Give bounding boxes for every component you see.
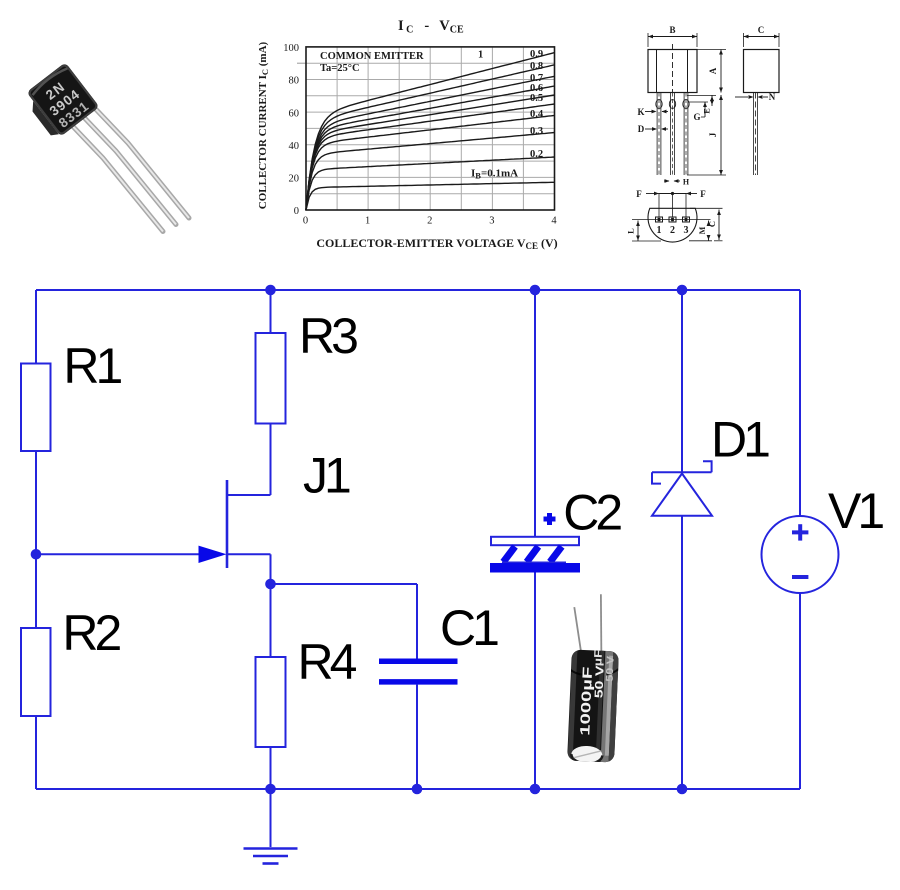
svg-text:60: 60	[289, 108, 300, 119]
svg-text:R4: R4	[298, 634, 357, 690]
svg-text:0.2: 0.2	[530, 149, 543, 160]
svg-text:D1: D1	[711, 411, 769, 467]
svg-text:80: 80	[289, 76, 300, 87]
svg-text:1: 1	[365, 216, 370, 227]
svg-text:H: H	[683, 178, 690, 187]
svg-text:20: 20	[289, 174, 300, 185]
svg-text:1: 1	[478, 50, 483, 61]
svg-text:A: A	[708, 67, 718, 74]
svg-text:µF: µF	[591, 649, 605, 667]
svg-text:40: 40	[289, 141, 300, 152]
svg-text:C: C	[758, 25, 765, 35]
svg-text:IC-VCE: IC-VCE	[398, 18, 464, 36]
svg-text:F: F	[700, 189, 706, 199]
svg-text:2: 2	[427, 216, 432, 227]
svg-text:G: G	[693, 112, 700, 122]
svg-text:0.4: 0.4	[530, 109, 544, 120]
svg-text:R2: R2	[62, 605, 120, 661]
svg-text:V1: V1	[828, 483, 883, 539]
svg-text:0.9: 0.9	[530, 49, 543, 60]
svg-text:E: E	[703, 108, 712, 113]
svg-text:3: 3	[684, 225, 689, 236]
svg-text:0.3: 0.3	[530, 126, 543, 137]
svg-text:1: 1	[657, 225, 662, 236]
svg-text:0.8: 0.8	[530, 61, 543, 72]
svg-text:J1: J1	[303, 448, 350, 504]
svg-text:L: L	[626, 228, 636, 234]
svg-text:2: 2	[670, 225, 675, 236]
svg-text:R1: R1	[63, 338, 121, 394]
svg-text:IB=0.1mA: IB=0.1mA	[471, 168, 518, 181]
svg-text:C: C	[707, 221, 717, 227]
svg-text:100: 100	[283, 43, 299, 54]
svg-text:4: 4	[551, 216, 557, 227]
svg-text:0.5: 0.5	[530, 93, 543, 104]
svg-text:COMMON EMITTER: COMMON EMITTER	[320, 51, 424, 62]
svg-text:R3: R3	[299, 308, 357, 364]
svg-text:N: N	[769, 92, 776, 102]
svg-text:D: D	[638, 124, 645, 134]
svg-text:F: F	[636, 189, 642, 199]
svg-text:3: 3	[489, 216, 494, 227]
svg-text:B: B	[669, 25, 675, 35]
svg-text:0: 0	[294, 206, 299, 217]
svg-text:J: J	[708, 132, 718, 137]
svg-text:C2: C2	[563, 485, 621, 541]
svg-text:0: 0	[303, 216, 308, 227]
svg-text:COLLECTOR CURRENT IC (mA): COLLECTOR CURRENT IC (mA)	[257, 41, 270, 209]
svg-text:50 V: 50 V	[592, 664, 607, 698]
svg-text:M: M	[698, 226, 707, 234]
svg-text:50 V: 50 V	[605, 655, 617, 682]
svg-text:C1: C1	[440, 600, 498, 656]
svg-text:COLLECTOR-EMITTER VOLTAGE VCE: COLLECTOR-EMITTER VOLTAGE VCE (V)	[316, 236, 557, 251]
svg-text:K: K	[637, 107, 644, 117]
svg-text:Ta=25°C: Ta=25°C	[320, 63, 360, 74]
